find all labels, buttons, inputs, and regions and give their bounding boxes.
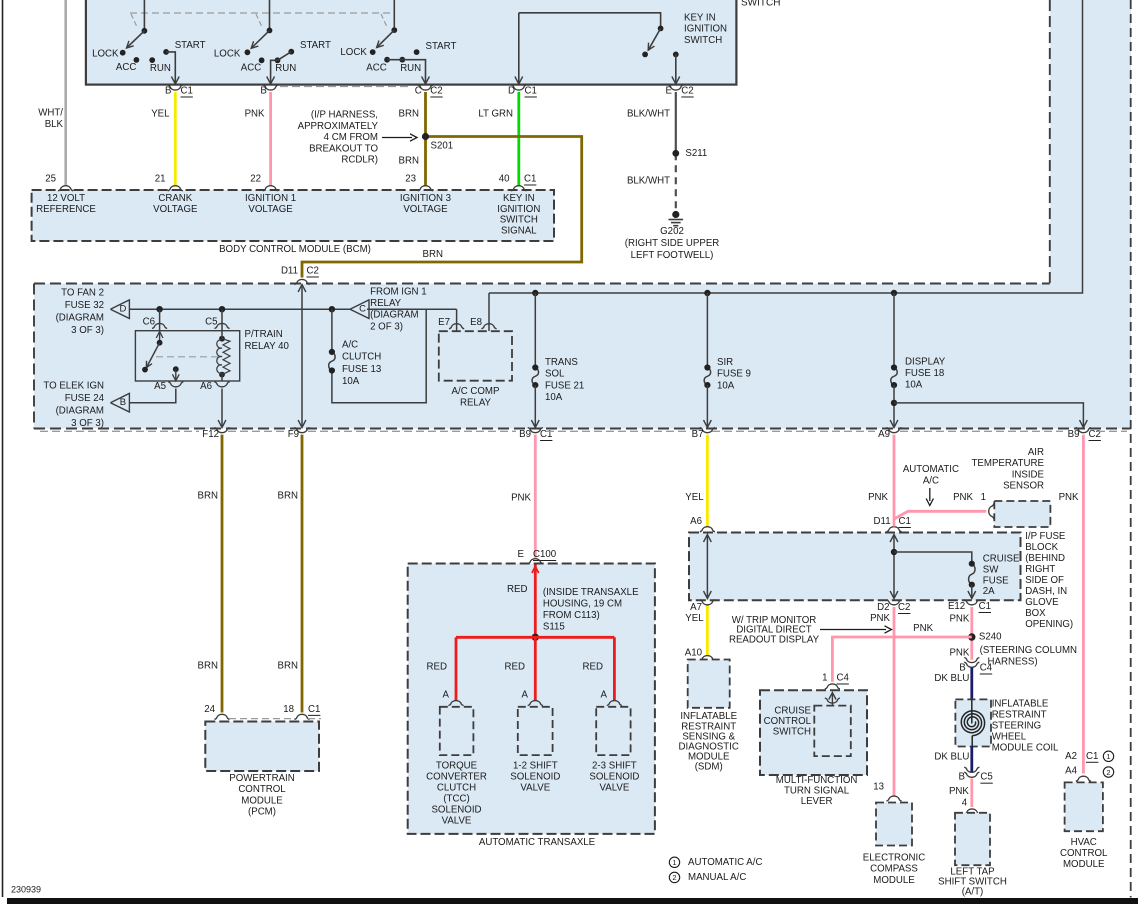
svg-text:(BEHIND: (BEHIND [1025,553,1065,564]
svg-text:C2: C2 [430,86,442,97]
svg-text:SOL: SOL [545,369,565,380]
svg-text:G202: G202 [660,226,684,237]
svg-text:C1: C1 [181,86,193,97]
svg-text:B: B [959,663,965,674]
splice S201 [422,133,429,140]
svg-text:F9: F9 [288,429,299,440]
HVAC control module [1065,782,1103,831]
svg-text:RELAY 40: RELAY 40 [245,341,290,352]
body control module (BCM) [32,190,554,241]
svg-text:OPENING): OPENING) [1025,619,1073,630]
key in ignition switch contacts [519,13,661,29]
svg-text:D11: D11 [281,266,298,277]
wire - key-in feed to terminal D (internal) [518,13,520,83]
svg-text:IGNITION 3: IGNITION 3 [400,193,451,204]
svg-text:START: START [175,40,206,51]
svg-text:C5: C5 [205,316,217,327]
connector D - to fan 2 fuse 32 [110,300,129,319]
A/C clutch fuse 13 10A with feed loop [332,309,426,403]
svg-text:RED: RED [427,662,447,673]
svg-text:E7: E7 [438,317,450,328]
svg-text:REFERENCE: REFERENCE [36,204,96,215]
svg-text:D: D [508,86,515,97]
svg-text:MODULE: MODULE [241,795,283,806]
svg-text:TEMPERATURE: TEMPERATURE [972,458,1045,469]
svg-text:4: 4 [962,798,968,809]
svg-text:22: 22 [250,174,261,185]
A/C comp relay terminal E8 [488,293,490,331]
svg-text:VALVE: VALVE [442,815,472,826]
connector boundary (gray dashed) under cell [40,430,199,432]
svg-text:13: 13 [873,782,884,793]
svg-text:A6: A6 [200,381,212,392]
wire BRN - F12 to PCM 24 [221,435,224,713]
svg-text:MODULE COIL: MODULE COIL [992,742,1059,753]
svg-text:IGNITION 1: IGNITION 1 [245,193,296,204]
svg-text:FUSE 9: FUSE 9 [717,369,751,380]
svg-text:HVAC: HVAC [1071,837,1097,848]
svg-text:BRN: BRN [198,491,218,502]
svg-text:LEVER: LEVER [801,796,833,807]
svg-text:A7: A7 [690,602,702,613]
svg-text:(TCC): (TCC) [443,793,469,804]
note - trip monitor readout pointer [820,629,886,631]
svg-text:C: C [415,86,422,97]
svg-text:E: E [666,86,673,97]
svg-text:(DIAGRAM: (DIAGRAM [56,406,104,417]
cruise SW fuse 2A [969,564,975,585]
svg-text:RED: RED [505,662,525,673]
BCM fill [32,190,554,241]
wire - A6 to A7 through fuse block [706,535,708,599]
BCM terminals 25 / 21 / 22 / 23 / 40 C1 [58,186,73,191]
svg-text:SWITCH: SWITCH [741,0,780,9]
wire BRN - F9 to PCM 18 [301,435,304,713]
svg-text:25: 25 [45,174,56,185]
svg-text:TURN SIGNAL: TURN SIGNAL [784,785,850,796]
svg-text:VOLTAGE: VOLTAGE [403,204,448,215]
svg-text:SOLENOID: SOLENOID [431,804,481,815]
svg-text:PNK: PNK [870,613,890,624]
wire BRN - ignition 3 voltage to BCM 23 [424,92,427,186]
wire PNK - B9 C1 to connector E C100 [534,435,537,558]
svg-text:B9: B9 [1068,429,1080,440]
svg-text:VOLTAGE: VOLTAGE [153,204,198,215]
wire - ignition feed bus from top right [489,0,1083,293]
svg-text:MANUAL A/C: MANUAL A/C [688,872,746,883]
svg-text:A10: A10 [685,648,703,659]
svg-text:230939: 230939 [11,885,41,895]
svg-text:IGNITION: IGNITION [497,204,540,215]
svg-text:A/C: A/C [923,475,939,486]
svg-text:TRANS: TRANS [545,357,578,368]
svg-text:FUSE 18: FUSE 18 [905,368,944,379]
svg-text:PNK: PNK [953,492,973,503]
svg-text:ACC: ACC [241,62,261,73]
ignition switch wafer 1 - crank contacts LOCK/ACC/RUN/START [143,0,145,31]
svg-text:23: 23 [405,174,416,185]
svg-text:1: 1 [1106,752,1110,761]
svg-text:A: A [443,690,450,701]
svg-text:KEY IN: KEY IN [684,13,716,24]
svg-text:PNK: PNK [868,492,888,503]
svg-text:AUTOMATIC TRANSAXLE: AUTOMATIC TRANSAXLE [479,837,596,848]
svg-text:A9: A9 [878,429,890,440]
svg-text:A4: A4 [1065,765,1077,776]
wire - D11 feed through cell to F9 [301,285,303,428]
svg-text:APPROXIMATELY: APPROXIMATELY [298,121,379,132]
svg-text:(PCM): (PCM) [248,806,276,817]
svg-text:MODULE: MODULE [873,875,915,886]
svg-text:LEFT FOOTWELL): LEFT FOOTWELL) [631,250,714,261]
wire PNK - B9 C2 to HVAC control module A2/A4 [1082,435,1085,774]
svg-text:DK BLU: DK BLU [934,751,969,762]
svg-text:KEY IN: KEY IN [503,193,535,204]
svg-text:BOX: BOX [1025,608,1046,619]
svg-text:BLK/WHT: BLK/WHT [627,109,670,120]
electronic compass module [876,803,912,846]
svg-text:CRUISE: CRUISE [983,554,1020,565]
svg-text:C2: C2 [898,602,910,613]
svg-text:S201: S201 [431,141,454,152]
svg-text:D11: D11 [874,516,891,527]
svg-text:CRANK: CRANK [158,193,192,204]
svg-text:PNK: PNK [913,623,933,634]
svg-text:D2: D2 [877,602,889,613]
svg-text:TO ELEK IGN: TO ELEK IGN [43,381,104,392]
svg-text:2 OF 3): 2 OF 3) [370,321,403,332]
wire PNK - A9 to fuse block D11 C1 [893,435,896,527]
svg-text:BRN: BRN [278,491,298,502]
svg-text:DISPLAY: DISPLAY [905,356,946,367]
svg-text:FROM C113): FROM C113) [543,610,600,621]
wire PNK - C5 to left tap shift switch 4 [970,779,973,808]
svg-text:FUSE 24: FUSE 24 [65,393,105,404]
svg-text:(DIAGRAM: (DIAGRAM [56,313,104,324]
wire RED - S115 branches to solenoid valves [456,636,614,639]
svg-text:SENSOR: SENSOR [1003,481,1044,492]
connector C2 boundary (gray dashed) [280,86,409,88]
svg-text:START: START [300,40,331,51]
svg-text:CLUTCH: CLUTCH [437,782,476,793]
svg-text:10A: 10A [545,392,563,403]
svg-text:RUN: RUN [275,63,296,74]
legend note 2 - manual A/C [669,872,679,882]
svg-text:CRUISE: CRUISE [774,705,811,716]
svg-text:AIR: AIR [1028,447,1044,458]
svg-text:10A: 10A [342,376,360,387]
wire LT GRN - key in switch signal to BCM 40 [517,92,520,186]
svg-text:RUN: RUN [150,63,171,74]
ignition switch housing fill [86,0,737,85]
A/C comp relay terminal E7 [426,308,456,310]
ignition switch housing [86,0,737,85]
svg-text:BRN: BRN [278,661,298,672]
SIR fuse 9 10A [706,293,708,368]
svg-text:RUN: RUN [400,63,421,74]
svg-text:A6: A6 [690,516,702,527]
svg-text:LOCK: LOCK [214,49,241,60]
relay terminal A5 [168,382,183,387]
svg-text:FUSE 32: FUSE 32 [65,300,104,311]
svg-text:A5: A5 [154,381,166,392]
svg-text:PNK: PNK [949,614,969,625]
wire PNK - branch to air temperature sensor pin 1 [894,511,986,519]
svg-text:DK BLU: DK BLU [934,673,969,684]
svg-text:4 CM FROM: 4 CM FROM [324,132,378,143]
svg-text:C6: C6 [143,316,155,327]
2-3 shift solenoid valve [596,707,630,755]
svg-text:B: B [260,86,266,97]
svg-text:FUSE 13: FUSE 13 [342,364,381,375]
svg-text:C1: C1 [524,174,536,185]
svg-text:DASH, IN: DASH, IN [1025,586,1067,597]
svg-text:A/C: A/C [342,340,358,351]
svg-text:BLK/WHT: BLK/WHT [627,176,670,187]
wire YEL - A7 to SDM A10 [706,605,709,656]
svg-text:CONTROL: CONTROL [764,716,812,727]
svg-text:C2: C2 [681,86,693,97]
svg-text:VALVE: VALVE [520,782,550,793]
svg-text:SW: SW [983,564,999,575]
svg-text:1: 1 [822,673,827,684]
svg-text:(STEERING COLUMN: (STEERING COLUMN [980,645,1077,656]
svg-text:A2: A2 [1065,751,1077,762]
svg-text:PNK: PNK [245,109,265,120]
svg-text:TO FAN 2: TO FAN 2 [61,288,104,299]
svg-text:TORQUE: TORQUE [436,760,478,771]
svg-text:WHEEL: WHEEL [992,731,1027,742]
wire RED - C100 to splice S115 [534,565,537,638]
svg-text:A: A [601,690,608,701]
ignition switch mechanical link (dashed) [130,12,390,14]
svg-text:B: B [959,772,965,783]
relay terminal C5 [221,309,223,331]
splice S240 (steering column harness) [968,633,975,640]
svg-text:START: START [426,41,457,52]
svg-text:CONTROL: CONTROL [1060,848,1108,859]
svg-text:12 VOLT: 12 VOLT [47,193,85,204]
splice S211 [672,150,679,157]
svg-text:PNK: PNK [949,647,969,658]
svg-text:BRN: BRN [423,249,443,260]
svg-text:C1: C1 [899,516,911,527]
svg-text:A/C COMP: A/C COMP [452,386,500,397]
svg-text:BRN: BRN [399,156,419,167]
svg-text:2-3 SHIFT: 2-3 SHIFT [592,760,637,771]
svg-text:18: 18 [283,704,294,715]
svg-text:S240: S240 [979,632,1002,643]
svg-text:E8: E8 [470,317,482,328]
cell terminals F12 / F9 / B9 C1 / B7 / A9 / B9 C2 [214,428,229,433]
wire PNK - D2 C2 to compass module 13 [893,607,896,796]
svg-text:(RIGHT SIDE UPPER: (RIGHT SIDE UPPER [625,238,720,249]
svg-text:VALVE: VALVE [600,782,630,793]
P/TRAIN relay 40 [135,331,239,381]
svg-text:3 OF 3): 3 OF 3) [71,418,104,429]
svg-text:ACC: ACC [366,63,386,74]
ignition switch connector terminals B C1 / B / C C2 / D C1 / E C2 [168,85,183,90]
svg-text:21: 21 [155,174,166,185]
solenoid terminals A / A / A [448,701,463,706]
svg-text:POWERTRAIN: POWERTRAIN [229,773,295,784]
wire PNK - E12 C1 to splice S240 [970,607,973,660]
relay terminal C6 [159,309,161,331]
svg-text:(A/T): (A/T) [962,887,984,898]
svg-text:PNK: PNK [949,786,969,797]
svg-text:(DIAGRAM: (DIAGRAM [370,310,418,321]
svg-text:BLOCK: BLOCK [1025,542,1058,553]
svg-text:RIGHT: RIGHT [1025,564,1055,575]
svg-text:VOLTAGE: VOLTAGE [248,204,293,215]
svg-text:YEL: YEL [685,492,704,503]
svg-text:MULTI-FUNCTION: MULTI-FUNCTION [776,775,858,786]
ground G202 [672,211,679,218]
air temperature inside sensor [994,501,1050,527]
svg-text:INFLATABLE: INFLATABLE [992,698,1049,709]
connector B - to elek ign fuse 24 [110,393,129,412]
inflatable restraint steering wheel module coil (clockspring) [955,699,991,746]
wire WHT/BLK - 12 volt reference to BCM 25 [64,0,67,186]
wire PNK - ignition 1 voltage to BCM 22 [269,92,272,186]
svg-text:FUSE: FUSE [983,575,1009,586]
svg-text:SIDE OF: SIDE OF [1025,575,1064,586]
svg-text:I/P FUSE: I/P FUSE [1025,531,1066,542]
wire PNK - S240 to cruise control switch 1 C4 [832,637,971,682]
svg-text:E12: E12 [948,601,965,612]
svg-text:S115: S115 [543,622,565,633]
svg-text:C2: C2 [307,266,319,277]
1-2 shift solenoid valve [518,707,553,755]
PCM terminals 24 / 18 C1 [214,714,229,719]
svg-text:S211: S211 [685,148,707,159]
svg-text:B7: B7 [692,429,704,440]
svg-text:C: C [359,304,366,315]
svg-text:RED: RED [583,662,603,673]
svg-text:SOLENOID: SOLENOID [510,771,560,782]
svg-text:10A: 10A [717,380,735,391]
svg-text:(SDM): (SDM) [695,762,723,773]
svg-text:B9: B9 [519,429,531,440]
svg-text:YEL: YEL [151,109,170,120]
svg-text:C5: C5 [980,772,992,783]
svg-text:C1: C1 [1086,751,1098,762]
svg-text:RESTRAINT: RESTRAINT [992,709,1047,720]
svg-text:BREAKOUT TO: BREAKOUT TO [309,143,378,154]
svg-text:PNK: PNK [511,493,531,504]
powertrain control module (PCM) [205,722,319,772]
svg-text:3 OF 3): 3 OF 3) [71,325,104,336]
wire YEL - crank voltage to BCM 21 [174,92,177,186]
svg-text:C1: C1 [525,86,537,97]
svg-text:BRN: BRN [399,109,419,120]
svg-text:HOUSING, 19 CM: HOUSING, 19 CM [543,598,622,609]
wire DK BLU - C4 to steering wheel coil [970,668,973,699]
svg-text:1: 1 [672,858,676,867]
power distribution cell outline (dashed) [34,283,1050,285]
svg-text:B: B [165,86,171,97]
svg-text:SWITCH: SWITCH [773,726,811,737]
A/C comp relay [439,331,512,381]
trans sol fuse 21 10A [534,293,536,368]
svg-text:LT GRN: LT GRN [478,109,513,120]
left tap shift switch (A/T) [955,813,990,865]
svg-text:SIGNAL: SIGNAL [501,225,537,236]
svg-text:24: 24 [204,704,215,715]
svg-text:10A: 10A [905,379,923,390]
svg-text:STEERING: STEERING [992,720,1042,731]
svg-text:2A: 2A [983,586,995,597]
svg-text:CLUTCH: CLUTCH [342,352,381,363]
svg-text:B: B [120,397,126,408]
svg-text:CONVERTER: CONVERTER [426,771,487,782]
svg-text:1-2 SHIFT: 1-2 SHIFT [513,760,558,771]
svg-text:MODULE: MODULE [1063,859,1105,870]
svg-text:COMPASS: COMPASS [870,864,918,875]
ignition switch wafer 3 - ignition 3 contacts LOCK/ACC/RUN/START [393,0,395,30]
svg-text:SWITCH: SWITCH [684,35,722,46]
svg-text:LOCK: LOCK [340,47,367,58]
svg-text:40: 40 [499,174,510,185]
automatic transaxle [408,564,655,834]
svg-text:C4: C4 [837,673,850,684]
svg-text:FROM IGN 1: FROM IGN 1 [370,287,427,298]
fuse block terminals D2 C2 / E12 C1 [886,600,901,605]
svg-text:BRN: BRN [198,661,218,672]
svg-text:GLOVE: GLOVE [1025,597,1059,608]
legend note 1 - automatic A/C [669,857,679,867]
svg-text:READOUT DISPLAY: READOUT DISPLAY [729,635,820,646]
svg-text:C1: C1 [308,704,320,715]
wire - IGN1 feed bus with junctions [130,308,351,310]
note - automatic A/C pointer [929,488,931,501]
svg-text:SOLENOID: SOLENOID [589,771,639,782]
svg-text:D: D [119,304,126,315]
ignition switch wafer 2 - ignition 1 contacts LOCK/ACC/RUN/START [269,0,271,30]
svg-text:C1: C1 [979,601,991,612]
power distribution cell fill [34,284,1131,429]
svg-text:RED: RED [507,584,527,595]
wire BLK/WHT (dashed) - S211 to ground G202 [675,153,677,211]
I/P fuse block [689,533,1021,601]
svg-text:E: E [518,549,525,560]
svg-text:AUTOMATIC A/C: AUTOMATIC A/C [688,857,762,868]
svg-text:WHT/: WHT/ [38,108,63,119]
wire DK BLU - coil to connector B C5 [970,747,973,773]
svg-text:BODY CONTROL MODULE (BCM): BODY CONTROL MODULE (BCM) [219,244,371,255]
svg-text:CONTROL: CONTROL [238,784,286,795]
svg-text:RELAY: RELAY [460,397,492,408]
svg-text:A: A [522,690,529,701]
svg-text:2: 2 [672,873,676,882]
wire BRN - splice S201 to BCM D11 C2 [302,137,582,278]
display fuse 18 10A [893,293,895,368]
svg-text:INSIDE: INSIDE [1012,469,1045,480]
wire BLK/WHT - E C2 to splice S211 [675,92,677,153]
svg-text:FUSE 21: FUSE 21 [545,380,584,391]
connector C - from IGN 1 relay [350,300,369,319]
svg-text:SIR: SIR [717,357,733,368]
svg-text:ELECTRONIC: ELECTRONIC [863,853,925,864]
svg-text:2: 2 [1106,768,1110,777]
svg-text:F12: F12 [202,429,219,440]
svg-text:HARNESS): HARNESS) [988,656,1038,667]
svg-text:BLK: BLK [45,119,64,130]
svg-text:P/TRAIN: P/TRAIN [245,329,283,340]
wire - D11 to D2 through fuse block [893,535,895,599]
svg-text:YEL: YEL [685,613,704,624]
relay coil [219,336,225,342]
